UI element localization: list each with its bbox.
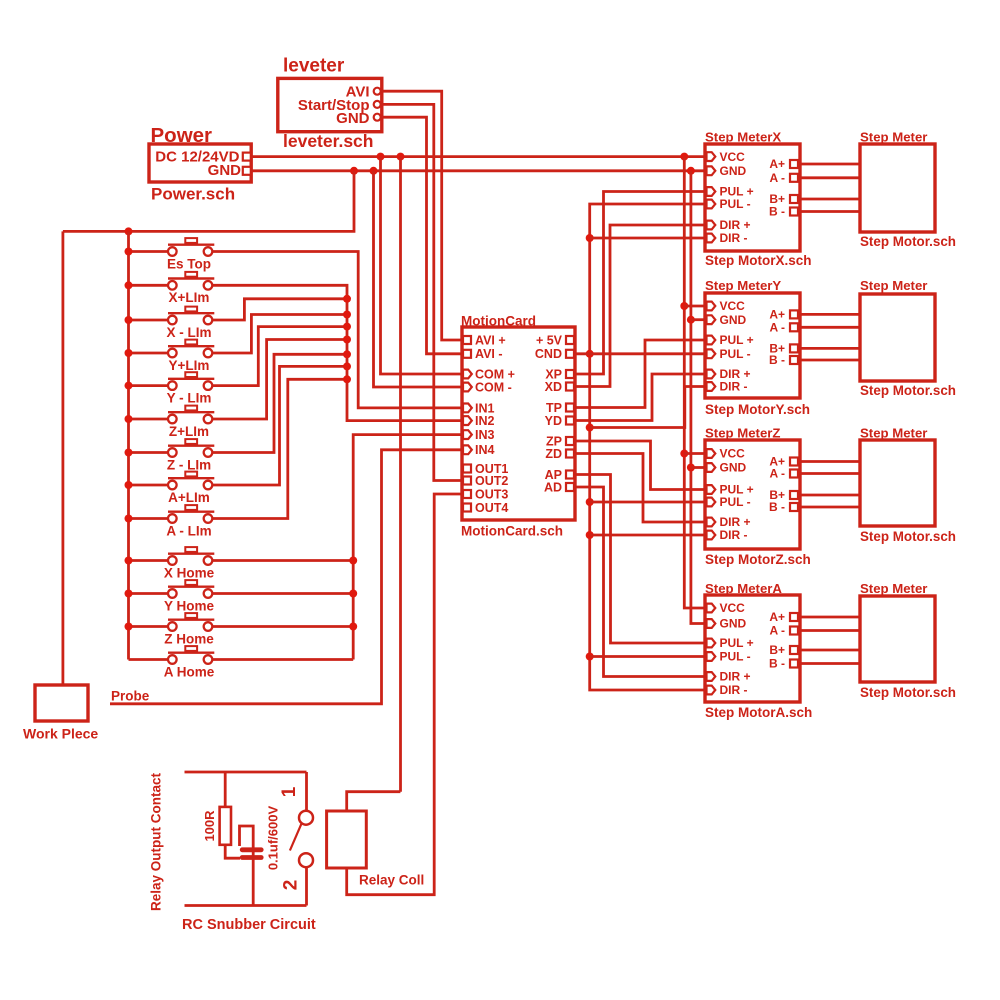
pin MotionCard OUT4: [463, 504, 471, 512]
wire MeterY to motor winding 2: [800, 326, 860, 329]
wire MeterA to motor winding 2: [800, 629, 860, 632]
junction left bus / X Home: [125, 557, 133, 565]
svg-text:1: 1: [279, 786, 300, 797]
pin Power DC 12/24VD: [243, 153, 251, 161]
wire AD to Step MeterA DIR+: [575, 487, 705, 677]
svg-text:Step Motor.sch: Step Motor.sch: [860, 529, 956, 544]
wire VCC bus to Step MeterY VCC: [684, 305, 705, 308]
pin MeterY B -: [790, 356, 798, 364]
pin MeterA PUL -: [707, 652, 716, 661]
svg-text:2: 2: [281, 880, 302, 891]
pin MeterA DIR -: [707, 686, 716, 695]
block Step Motor Z: [860, 426, 956, 545]
junction home bus / Y Home: [349, 590, 357, 598]
junction limit bus / Z - LIm: [343, 350, 351, 358]
wire bus to Y - LIm left terminal: [129, 384, 169, 387]
svg-text:Work Plece: Work Plece: [23, 726, 98, 742]
pin leveter AVI: [374, 88, 381, 95]
relay contact terminal 2: [281, 853, 314, 905]
junction left bus / Es Top: [125, 248, 133, 256]
pin MeterX PUL +: [707, 187, 716, 196]
junction left bus / A - LIm: [125, 515, 133, 523]
junction left bus / Y - LIm: [125, 382, 133, 390]
svg-text:GND: GND: [720, 164, 747, 178]
pin MeterX VCC: [707, 152, 716, 161]
svg-text:A+: A+: [769, 157, 785, 171]
svg-text:PUL +: PUL +: [720, 333, 754, 347]
wire resistor to capacitor: [225, 845, 240, 858]
switch Es Top: [167, 238, 214, 271]
pin MeterY PUL -: [707, 349, 716, 358]
svg-text:Step Motor.sch: Step Motor.sch: [860, 234, 956, 249]
pin MotionCard COM +: [463, 370, 472, 379]
pin MotionCard COM -: [463, 383, 472, 392]
wire bus to Z Home left terminal: [129, 625, 169, 628]
svg-text:IN4: IN4: [475, 443, 495, 457]
svg-text:Step Meter: Step Meter: [860, 581, 927, 596]
svg-text:DIR -: DIR -: [720, 380, 748, 394]
pin MeterX B+: [790, 195, 798, 203]
svg-text:AVI +: AVI +: [475, 333, 506, 347]
pin MeterZ B -: [790, 503, 798, 511]
svg-text:B -: B -: [769, 353, 785, 367]
wire XD to Step MeterX DIR+: [575, 225, 705, 387]
junction CND bus / PUL- Z: [586, 498, 594, 506]
pin MotionCard AVI -: [463, 350, 471, 358]
svg-text:DIR -: DIR -: [720, 528, 748, 542]
pin MotionCard CND: [566, 350, 574, 358]
svg-text:AVI -: AVI -: [475, 347, 503, 361]
junction limit bus / Y - LIm: [343, 323, 351, 331]
pin MeterA A+: [790, 613, 798, 621]
svg-text:A -: A -: [769, 467, 785, 481]
svg-text:DIR +: DIR +: [720, 515, 751, 529]
svg-text:A -: A -: [769, 624, 785, 638]
svg-text:X Home: X Home: [164, 565, 215, 580]
pin MeterY VCC: [707, 302, 716, 311]
wire MeterZ to motor winding 1: [800, 460, 860, 463]
pin MeterY GND: [707, 315, 716, 324]
pin MeterA GND: [707, 619, 716, 628]
svg-text:DIR +: DIR +: [720, 670, 751, 684]
wire A+LIm to limit bus: [212, 366, 347, 485]
svg-text:B+: B+: [769, 643, 785, 657]
svg-text:DIR +: DIR +: [720, 218, 751, 232]
wire CND bus to Step MeterZ PUL-: [590, 501, 705, 504]
block Step MeterX driver: [705, 130, 812, 269]
svg-text:COM -: COM -: [475, 380, 512, 394]
svg-text:X+LIm: X+LIm: [169, 290, 210, 305]
wire bus to Es Top left terminal: [129, 250, 169, 253]
switch Y+LIm: [168, 340, 214, 373]
wire MeterZ to motor winding 3: [800, 494, 860, 497]
svg-text:Step Meter: Step Meter: [860, 278, 927, 293]
junction GND rail / switch-bus tap: [350, 167, 358, 175]
svg-text:Step MeterX: Step MeterX: [705, 130, 781, 145]
pin MotionCard OUT2: [463, 477, 471, 485]
svg-text:Z Home: Z Home: [164, 631, 214, 646]
wire A Home to home bus: [212, 658, 353, 661]
junction left bus / X+LIm: [125, 281, 133, 289]
svg-text:Step Motor.sch: Step Motor.sch: [860, 685, 956, 700]
wire MeterA to motor winding 3: [800, 649, 860, 652]
wire GND bus to Step MeterY GND: [691, 318, 705, 321]
junction GND bus / MeterY GND: [687, 316, 695, 324]
svg-text:Y Home: Y Home: [164, 598, 215, 613]
wire relay coil to DC+ feed: [347, 792, 401, 811]
wire X - LIm to limit bus: [212, 299, 347, 320]
wire DC+ down to MotionCard COM+: [381, 157, 463, 374]
junction limit bus / A - LIm: [343, 375, 351, 383]
junction left bus / Y Home: [125, 590, 133, 598]
svg-text:MotionCard.sch: MotionCard.sch: [461, 524, 563, 539]
junction left bus / Y+LIm: [125, 349, 133, 357]
junction left bus / Z Home: [125, 623, 133, 631]
pin MeterX GND: [707, 166, 716, 175]
svg-text:PUL -: PUL -: [720, 197, 751, 211]
pin MeterA B -: [790, 660, 798, 668]
svg-text:VCC: VCC: [720, 299, 746, 313]
pin MeterA A -: [790, 627, 798, 635]
wire leveter AVI to MotionCard AVI+: [382, 91, 462, 340]
wire MeterZ to motor winding 4: [800, 506, 860, 509]
pin MotionCard XP: [566, 370, 574, 378]
junction GND rail / COM- tap: [370, 167, 378, 175]
svg-text:Step MotorY.sch: Step MotorY.sch: [705, 402, 810, 417]
wire bus to Y Home left terminal: [129, 592, 169, 595]
svg-text:leveter: leveter: [283, 56, 345, 77]
wire GND down to MotionCard COM-: [374, 171, 463, 387]
svg-text:OUT3: OUT3: [475, 487, 508, 501]
junction DC+ / relay coil tap: [397, 153, 405, 161]
wire MotionCard OUT3 to relay coil: [347, 494, 462, 895]
svg-text:X - LIm: X - LIm: [166, 325, 211, 340]
svg-text:PUL -: PUL -: [720, 347, 751, 361]
block MotionCard U2: [461, 314, 575, 539]
wire Y+LIm to limit bus: [212, 315, 347, 354]
junction VCC bus / MeterY VCC: [680, 302, 688, 310]
svg-text:Probe: Probe: [111, 689, 150, 704]
pin MeterA PUL +: [707, 639, 716, 648]
wire VCC bus down to Step MeterA VCC: [684, 157, 705, 608]
block Step MeterY driver: [705, 278, 810, 417]
svg-text:OUT4: OUT4: [475, 501, 508, 515]
pin MeterX PUL -: [707, 200, 716, 209]
svg-text:Step Meter: Step Meter: [860, 130, 927, 145]
wire MeterY to motor winding 4: [800, 359, 860, 362]
wire GND down and across to switch buses: [63, 171, 354, 232]
wire AP to Step MeterA PUL+: [575, 475, 705, 644]
pin MotionCard ZP: [566, 437, 574, 445]
pin MeterZ GND: [707, 463, 716, 472]
svg-text:VCC: VCC: [720, 447, 746, 461]
svg-text:GND: GND: [720, 461, 747, 475]
switch X+LIm: [168, 272, 214, 305]
svg-text:GND: GND: [208, 162, 242, 179]
svg-text:AD: AD: [544, 480, 562, 494]
svg-text:COM +: COM +: [475, 367, 515, 381]
wire Es Top to MotionCard IN1: [212, 252, 462, 408]
pin MeterZ PUL -: [707, 498, 716, 507]
wire bus to A+LIm left terminal: [129, 484, 169, 487]
switch Z - LIm: [167, 439, 214, 472]
svg-text:A+: A+: [769, 308, 785, 322]
wire bus to Z+LIm left terminal: [129, 418, 169, 421]
svg-text:IN2: IN2: [475, 414, 495, 428]
pin MeterZ A+: [790, 458, 798, 466]
wire MeterA to motor winding 4: [800, 662, 860, 665]
svg-text:A Home: A Home: [164, 664, 215, 679]
svg-text:A+LIm: A+LIm: [168, 490, 210, 505]
junction VCC bus / MeterZ VCC: [680, 450, 688, 458]
pin MeterY A -: [790, 323, 798, 331]
svg-text:Y - LIm: Y - LIm: [167, 390, 212, 405]
pin MeterZ DIR +: [707, 518, 716, 527]
pin MotionCard OUT3: [463, 490, 471, 498]
svg-text:DIR -: DIR -: [720, 231, 748, 245]
switch Y Home: [164, 580, 215, 613]
svg-text:IN3: IN3: [475, 428, 495, 442]
wire Probe to MotionCard IN4: [110, 450, 462, 704]
block Work Piece: [23, 685, 98, 742]
switch A Home: [164, 646, 215, 679]
pin MeterY PUL +: [707, 336, 716, 345]
junction left bus / A+LIm: [125, 481, 133, 489]
svg-text:Step Meter: Step Meter: [860, 426, 927, 441]
wire Z Home to home bus: [212, 625, 353, 628]
wire MeterX to motor winding 3: [800, 198, 860, 201]
junction left bus / Z+LIm: [125, 415, 133, 423]
wire CND bus to Step MeterX DIR-: [590, 237, 705, 240]
wire home bus to MotionCard IN3: [353, 435, 462, 660]
svg-text:ZD: ZD: [545, 447, 562, 461]
wire Z+LIm to limit bus: [212, 340, 347, 420]
resistor 100R: [220, 807, 231, 845]
junction DC+ / VCC bus: [680, 153, 688, 161]
svg-text:DIR -: DIR -: [720, 683, 748, 697]
svg-text:PUL -: PUL -: [720, 495, 751, 509]
relay coil K1: [327, 811, 425, 888]
switch Y - LIm: [167, 372, 215, 405]
wire bus to X+LIm left terminal: [129, 284, 169, 287]
wire MeterZ to motor winding 2: [800, 472, 860, 475]
wire bus to A Home left terminal: [129, 658, 169, 661]
wire MeterX to motor winding 1: [800, 163, 860, 166]
svg-text:+ 5V: + 5V: [536, 333, 563, 347]
pin MeterZ PUL +: [707, 485, 716, 494]
block Step Motor A: [860, 581, 956, 700]
wire GND bus down to Step MeterA GND: [691, 171, 705, 624]
junction limit bus / X - LIm: [343, 295, 351, 303]
junction GND bus / MeterZ GND: [687, 464, 695, 472]
pin leveter Start/Stop: [374, 101, 381, 108]
wire A - LIm to limit bus: [212, 379, 347, 518]
capacitor 0.1uf/600V: [240, 826, 264, 906]
junction limit bus / Y+LIm: [343, 311, 351, 319]
svg-text:Step MeterY: Step MeterY: [705, 278, 781, 293]
block Step MeterA driver: [705, 581, 812, 720]
block leveter (pendant) U1: [278, 56, 382, 152]
junction CND bus / DIR- Y branch: [586, 424, 594, 432]
svg-text:Power.sch: Power.sch: [151, 185, 235, 204]
wire bus to Y+LIm left terminal: [129, 352, 169, 355]
svg-text:Step MotorZ.sch: Step MotorZ.sch: [705, 552, 811, 567]
svg-text:PUL -: PUL -: [720, 650, 751, 664]
pin MotionCard YD: [566, 417, 574, 425]
pin Power GND: [243, 167, 251, 175]
wire YD to Step MeterY DIR+: [575, 374, 705, 421]
svg-text:100R: 100R: [202, 810, 217, 842]
svg-text:XD: XD: [545, 380, 562, 394]
svg-text:Es Top: Es Top: [167, 256, 211, 271]
junction CND bus / DIR- Z: [586, 531, 594, 539]
wire snubber top rail: [185, 771, 307, 774]
svg-text:Z+LIm: Z+LIm: [169, 424, 209, 439]
wire X+LIm / limit bus to MotionCard IN2: [212, 285, 462, 420]
wire Y Home to home bus: [212, 592, 353, 595]
wire MotionCard CND to Step MeterY PUL-: [575, 352, 705, 355]
pin MeterX DIR +: [707, 221, 716, 230]
pin MeterY A+: [790, 310, 798, 318]
pin MeterA VCC: [707, 604, 716, 613]
svg-text:B -: B -: [769, 657, 785, 671]
junction DC+ / COM+ tap: [377, 153, 385, 161]
junction limit bus / Z+LIm: [343, 336, 351, 344]
junction home bus / X Home: [349, 557, 357, 565]
pin MotionCard OUT1: [463, 465, 471, 473]
svg-text:CND: CND: [535, 347, 562, 361]
junction limit bus / A+LIm: [343, 362, 351, 370]
pin MotionCard AVI +: [463, 336, 471, 344]
wire X Home to home bus: [212, 559, 353, 562]
wire GND rail from Power to Step MeterX GND: [251, 169, 705, 172]
svg-text:B -: B -: [769, 500, 785, 514]
junction CND bus / CND line: [586, 350, 594, 358]
svg-text:A - LIm: A - LIm: [166, 523, 211, 538]
switch X - LIm: [166, 307, 214, 340]
relay contact blade: [290, 824, 302, 851]
wire far-left bus down to Work Piece: [62, 231, 65, 685]
pin MeterY DIR -: [707, 382, 716, 391]
wire MeterX to motor winding 2: [800, 176, 860, 179]
junction home bus / Z Home: [349, 623, 357, 631]
junction left bus / X - LIm: [125, 316, 133, 324]
wire XP to Step MeterX PUL+: [575, 192, 705, 375]
svg-text:Relay Output Contact: Relay Output Contact: [149, 772, 164, 911]
wire Z - LIm to limit bus: [212, 354, 347, 452]
wire snubber bottom rail: [185, 904, 307, 907]
svg-text:Step MotorA.sch: Step MotorA.sch: [705, 705, 812, 720]
pin MeterZ DIR -: [707, 531, 716, 540]
wire DC+ down to relay coil: [399, 157, 402, 792]
svg-text:GND: GND: [720, 313, 747, 327]
wire bus to X - LIm left terminal: [129, 319, 169, 322]
pin MotionCard IN2: [463, 416, 472, 425]
svg-text:GND: GND: [720, 617, 747, 631]
svg-text:Step MotorX.sch: Step MotorX.sch: [705, 253, 812, 268]
pin MotionCard ZD: [566, 450, 574, 458]
pin MeterX B -: [790, 208, 798, 216]
pin MeterZ A -: [790, 470, 798, 478]
svg-text:A -: A -: [769, 321, 785, 335]
svg-text:leveter.sch: leveter.sch: [283, 131, 373, 151]
pin MeterX A -: [790, 174, 798, 182]
wire bus to Z - LIm left terminal: [129, 451, 169, 454]
svg-text:YD: YD: [545, 414, 562, 428]
pin MotionCard XD: [566, 383, 574, 391]
wire leveter Start/Stop to MotionCard OUT2: [382, 104, 462, 480]
junction CND bus / PUL- A: [586, 653, 594, 661]
wire DC+ rail from Power to Step MeterX VCC: [251, 155, 705, 158]
junction GND / GND bus: [687, 167, 695, 175]
svg-text:VCC: VCC: [720, 150, 746, 164]
junction left bus / Z - LIm: [125, 449, 133, 457]
wire switch left bus: [127, 231, 130, 659]
pin MeterY DIR +: [707, 370, 716, 379]
svg-text:Step MeterZ: Step MeterZ: [705, 426, 780, 441]
switch A - LIm: [166, 505, 214, 538]
wire MeterX to motor winding 4: [800, 210, 860, 213]
wire TP to Step MeterY PUL+: [575, 340, 705, 408]
wire ZP to Step MeterZ PUL+: [575, 441, 705, 490]
svg-text:GND: GND: [336, 110, 370, 127]
wire leveter GND to MotionCard AVI-: [382, 117, 462, 354]
junction CND bus / DIR- X: [586, 234, 594, 242]
pin MotionCard AD: [566, 483, 574, 491]
svg-text:A -: A -: [769, 171, 785, 185]
pin MeterZ VCC: [707, 449, 716, 458]
svg-text:0.1uf/600V: 0.1uf/600V: [266, 806, 281, 871]
svg-text:A+: A+: [769, 610, 785, 624]
block Step Motor X: [860, 130, 956, 250]
svg-text:Z - LIm: Z - LIm: [167, 457, 211, 472]
wire ZD to Step MeterZ DIR+: [575, 454, 705, 523]
svg-text:TP: TP: [546, 401, 562, 415]
switch Z Home: [164, 613, 214, 646]
svg-text:RC Snubber Circuit: RC Snubber Circuit: [182, 917, 316, 933]
relay contact terminal 1: [279, 772, 313, 825]
svg-text:Y+LIm: Y+LIm: [169, 358, 210, 373]
wire bus to A - LIm left terminal: [129, 517, 169, 520]
pin leveter GND: [374, 114, 381, 121]
svg-text:PUL +: PUL +: [720, 636, 754, 650]
pin MeterA B+: [790, 646, 798, 654]
wire MeterY to motor winding 1: [800, 313, 860, 316]
block Power PS1: [149, 124, 251, 204]
wire CND bus to Step MeterY DIR-: [590, 387, 705, 428]
pin MotionCard IN4: [463, 445, 472, 454]
wire MeterA to motor winding 1: [800, 616, 860, 619]
junction switch left bus: [125, 227, 133, 235]
wire Y - LIm to limit bus: [212, 327, 347, 386]
pin MotionCard + 5V: [566, 336, 574, 344]
block Step MeterZ driver: [705, 426, 811, 568]
pin MotionCard TP: [566, 404, 574, 412]
pin MotionCard AP: [566, 471, 574, 479]
wire CND bus (PUL-X down to DIR-A): [590, 204, 705, 690]
pin MeterX DIR -: [707, 234, 716, 243]
pin MeterZ B+: [790, 491, 798, 499]
wire CND bus to Step MeterA PUL-: [590, 655, 705, 658]
switch A+LIm: [168, 472, 214, 505]
pin MotionCard IN1: [463, 404, 472, 413]
wire VCC bus to Step MeterZ VCC: [684, 452, 705, 455]
block Step Motor Y: [860, 278, 956, 398]
svg-text:OUT2: OUT2: [475, 474, 508, 488]
wire CND bus to Step MeterZ DIR-: [590, 534, 705, 537]
wire MeterY to motor winding 3: [800, 347, 860, 350]
pin MeterA DIR +: [707, 672, 716, 681]
